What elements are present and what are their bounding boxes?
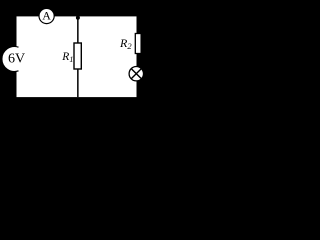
- svg-text:6V: 6V: [8, 51, 25, 66]
- svg-text:A: A: [42, 9, 51, 23]
